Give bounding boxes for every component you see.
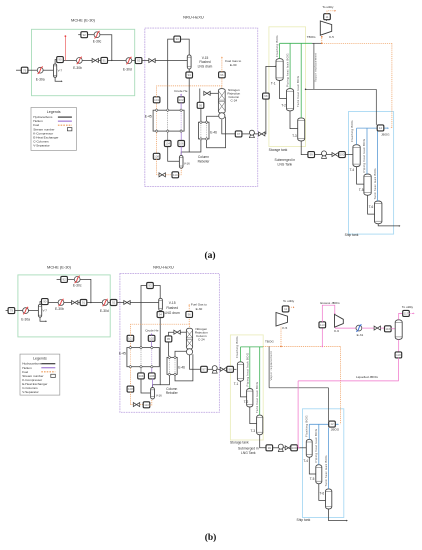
svg-text:98: 98 bbox=[264, 94, 268, 98]
svg-text:12: 12 bbox=[379, 126, 383, 130]
vapor replacement riser (a) bbox=[313, 43, 315, 89]
wire 98 to T-1 (a) bbox=[266, 66, 276, 93]
arrow fuel gas to E-30 (a) bbox=[221, 57, 223, 59]
stream 90 (b) bbox=[42, 299, 49, 305]
storage tank frame (b) bbox=[230, 335, 263, 440]
svg-text:T-6: T-6 bbox=[369, 205, 374, 209]
valve V-16 bottoms (b) bbox=[133, 403, 139, 407]
svg-text:K-6: K-6 bbox=[334, 329, 339, 333]
svg-text:Liquefied JBOG: Liquefied JBOG bbox=[356, 375, 378, 379]
separator V-15 (b) bbox=[159, 298, 163, 310]
fuel JBOG riser (b) bbox=[340, 346, 342, 424]
svg-text:95: 95 bbox=[167, 337, 171, 341]
fuel wire up to 96 (a) bbox=[221, 78, 223, 86]
stream 94 (a) bbox=[186, 72, 193, 78]
wire valve to V-15 (b) bbox=[130, 302, 159, 304]
stream 92 top (a) bbox=[81, 32, 88, 38]
svg-text:96: 96 bbox=[188, 313, 192, 317]
stream 93 (b) bbox=[147, 283, 154, 289]
svg-text:Piping heat leak BOG: Piping heat leak BOG bbox=[285, 53, 289, 87]
svg-text:MCHE (E-30): MCHE (E-30) bbox=[47, 264, 72, 269]
fuel wire E-45 top-left up (a) bbox=[156, 103, 158, 109]
tank T-2 (a) bbox=[287, 89, 294, 111]
fuel valve to 110 (b) bbox=[140, 404, 144, 406]
svg-text:12: 12 bbox=[330, 422, 334, 426]
wire valve to C-24 (a) bbox=[210, 92, 218, 94]
wire E-30c down to main (b) bbox=[80, 279, 91, 302]
separator V-7 (b) bbox=[38, 304, 41, 317]
tank T-4 (b) bbox=[306, 439, 312, 457]
svg-text:101: 101 bbox=[128, 336, 133, 340]
helium wire 106 to V-16 top (a) bbox=[180, 146, 182, 155]
svg-text:Crude He: Crude He bbox=[145, 328, 159, 332]
valve NRU inlet (b) bbox=[124, 301, 130, 305]
svg-text:Legends: Legends bbox=[47, 110, 61, 114]
wire stub to stream 92 top (a) bbox=[78, 34, 81, 36]
stream 102 (a) bbox=[178, 97, 185, 103]
separator V-17 (b) bbox=[395, 320, 402, 340]
legend box (b) bbox=[20, 354, 60, 395]
svg-text:92: 92 bbox=[112, 301, 116, 305]
heat exchanger E-30d (a) bbox=[126, 57, 132, 64]
stream 97 (b) bbox=[201, 366, 208, 372]
svg-text:104: 104 bbox=[139, 374, 144, 378]
wire V-15 top to 93 (b) bbox=[153, 286, 160, 299]
wire 90 to E-30b (b) bbox=[48, 302, 58, 304]
svg-text:Tank heat leak BOG: Tank heat leak BOG bbox=[296, 75, 300, 107]
tank T-5 (b) bbox=[316, 465, 322, 484]
wire C-24 bottoms (a) bbox=[222, 120, 236, 134]
fuel gas riser (b) bbox=[188, 305, 190, 311]
svg-text:Vapor replacement: Vapor replacement bbox=[269, 351, 273, 380]
wire 99 to pump (a) bbox=[314, 154, 321, 156]
svg-text:V-7: V-7 bbox=[58, 68, 63, 72]
blue tank line (b) bbox=[328, 428, 330, 489]
svg-text:(a): (a) bbox=[204, 250, 215, 261]
helium wire E-45 top-right (a) bbox=[180, 103, 182, 109]
stream JBOG (a) bbox=[377, 125, 384, 131]
svg-text:Flashing BOG: Flashing BOG bbox=[305, 415, 309, 437]
svg-text:92: 92 bbox=[62, 278, 66, 282]
green flashing BOG line (a) bbox=[279, 43, 281, 58]
wire T-3 bottom out (b) bbox=[260, 435, 266, 448]
svg-text:100: 100 bbox=[292, 446, 297, 450]
heat exchanger E-30b (b) bbox=[58, 299, 64, 306]
svg-text:94: 94 bbox=[188, 73, 192, 77]
svg-text:K-5: K-5 bbox=[282, 326, 287, 330]
stream 92 out (b) bbox=[110, 300, 117, 306]
svg-text:T-1: T-1 bbox=[271, 82, 276, 86]
svg-text:To utility: To utility bbox=[402, 305, 414, 309]
heat exchanger E-30a (a) bbox=[37, 67, 43, 74]
K-6 discharge to E-31 (b) bbox=[335, 326, 356, 329]
svg-text:Piping heat leak BOG: Piping heat leak BOG bbox=[245, 352, 249, 386]
arrow ship outlet (b) bbox=[346, 520, 348, 522]
wire 95 up to valve (a) bbox=[199, 89, 201, 103]
svg-text:E-46: E-46 bbox=[178, 366, 185, 370]
svg-text:E-45: E-45 bbox=[145, 114, 152, 118]
wire pump to valve (b) bbox=[283, 447, 285, 449]
svg-text:113: 113 bbox=[320, 323, 325, 327]
svg-text:Vapor replacement: Vapor replacement bbox=[314, 53, 318, 82]
wire C-24 side to E-46 (a) bbox=[207, 116, 219, 121]
fuel wire E-45 bottom-left (a) bbox=[156, 133, 158, 154]
svg-text:Crude He: Crude He bbox=[174, 89, 188, 93]
svg-text:E-30c: E-30c bbox=[73, 284, 82, 288]
fuel gas line into E-30 (a) bbox=[64, 36, 66, 60]
pump P-2 (b) bbox=[278, 444, 283, 452]
helium E-45 bottom-right (b) bbox=[151, 368, 153, 373]
stream 92 out (a) bbox=[135, 58, 142, 64]
wire K-5 to outbox (b) bbox=[285, 311, 287, 314]
stream 96 (b) bbox=[186, 311, 193, 317]
junction TBOG K-5 (b) bbox=[280, 346, 282, 348]
heat exchanger E-31 (b) bbox=[356, 325, 362, 332]
svg-text:Flashing BOG: Flashing BOG bbox=[350, 120, 354, 142]
wire V-7 top to stream 90 (a) bbox=[55, 60, 57, 64]
valve MCHE (b) bbox=[72, 301, 78, 305]
separator V-7 (a) bbox=[54, 64, 57, 77]
svg-text:98: 98 bbox=[228, 367, 232, 371]
wire pump to valve (b) bbox=[217, 368, 220, 370]
MCHE (E-30) frame (b) bbox=[18, 275, 110, 337]
blue flashing line (b) bbox=[308, 424, 310, 439]
svg-text:104: 104 bbox=[165, 142, 170, 146]
wire E-30d to 92 out (b) bbox=[108, 302, 110, 304]
svg-text:79: 79 bbox=[23, 68, 27, 72]
wire 98 to T-1 (b) bbox=[233, 368, 236, 370]
svg-text:TBOG: TBOG bbox=[265, 340, 274, 344]
stream 100 (b) bbox=[291, 445, 298, 451]
junction E-30c return (a) bbox=[111, 60, 112, 61]
svg-text:Legends: Legends bbox=[33, 357, 47, 361]
storage tank frame (a) bbox=[269, 27, 306, 147]
svg-text:V-Separator: V-Separator bbox=[33, 143, 50, 147]
wire valve to 91 (b) bbox=[78, 302, 80, 304]
stream 95 (b) bbox=[165, 336, 172, 342]
blue piping heat leak line (a) bbox=[366, 128, 368, 174]
wire E-30d to stream 92b (a) bbox=[132, 60, 136, 62]
svg-text:97: 97 bbox=[202, 367, 206, 371]
svg-text:92: 92 bbox=[83, 33, 87, 37]
fuel TBOG header (b) bbox=[263, 345, 341, 347]
svg-text:NRU-HeXU: NRU-HeXU bbox=[183, 15, 204, 20]
valve NRU inlet (a) bbox=[149, 59, 155, 63]
wire V-15 top to 93 (a) bbox=[181, 39, 190, 55]
fuel wire valve to 110 (a) bbox=[165, 174, 172, 176]
wire T-3 bottom out (a) bbox=[301, 141, 308, 155]
fuel 108 to valve (b) bbox=[130, 392, 133, 405]
valve C-24 reflux (b) bbox=[174, 330, 180, 334]
green tank heat leak line (a) bbox=[300, 43, 302, 118]
svg-text:99: 99 bbox=[268, 446, 272, 450]
svg-text:E-30a: E-30a bbox=[21, 318, 30, 322]
svg-text:V-Separator: V-Separator bbox=[22, 390, 39, 394]
svg-text:T-2: T-2 bbox=[281, 104, 286, 108]
fuel wire to K-5 (b) bbox=[280, 327, 282, 347]
stream 117 (b) bbox=[403, 310, 410, 316]
stream 110 (b) bbox=[143, 402, 150, 408]
wire 104 to V-16 (b) bbox=[141, 379, 151, 393]
stream 104 (a) bbox=[164, 141, 171, 147]
fuel node dot (a) bbox=[65, 35, 67, 37]
stream 98 (b) bbox=[227, 366, 234, 372]
junction liquefied JBOG (b) bbox=[298, 447, 300, 449]
svg-text:102: 102 bbox=[149, 336, 154, 340]
tank T-3 (b) bbox=[257, 415, 263, 435]
wire 90 to E-30b (a) bbox=[63, 59, 76, 61]
wire feed inlet (a) bbox=[16, 69, 21, 71]
svg-text:T-3: T-3 bbox=[292, 134, 297, 138]
svg-text:11: 11 bbox=[284, 307, 287, 311]
stream 110 (a) bbox=[172, 172, 179, 178]
wire valve to stream 91 (a) bbox=[99, 59, 102, 61]
liquefied JBOG line (b) bbox=[298, 358, 398, 381]
wire 97 to pump (b) bbox=[207, 368, 212, 370]
compressor K-5 (a) bbox=[320, 21, 331, 35]
wire 94 to V-16 top (a) bbox=[181, 78, 189, 156]
vapor replacement down to JBOG (a) bbox=[375, 89, 377, 125]
tank T-1 (a) bbox=[276, 59, 283, 81]
stream 104 (b) bbox=[138, 373, 145, 379]
tank T-1 (b) bbox=[237, 362, 243, 381]
fuel wire to utility (a) bbox=[327, 11, 335, 14]
svg-text:90: 90 bbox=[43, 300, 47, 304]
wire V-15 bottom to 94 (a) bbox=[188, 69, 190, 72]
vapor replacement down to JBOG (b) bbox=[328, 388, 330, 421]
wire E-45 mid bottom to 104 (a) bbox=[167, 133, 169, 141]
heat exchanger E-30a (b) bbox=[23, 307, 29, 314]
fuel header to C-24 (b) bbox=[130, 324, 188, 335]
NRU-HeXU frame (b) bbox=[120, 274, 219, 413]
wire K-5 to outbox (a) bbox=[326, 19, 328, 22]
svg-text:E-30d: E-30d bbox=[123, 68, 132, 72]
fuel wire to utility (b) bbox=[289, 306, 293, 308]
svg-text:To utility: To utility bbox=[283, 299, 295, 303]
heat exchanger E-46 (a) bbox=[199, 121, 210, 141]
junction TBOG (a) bbox=[321, 43, 323, 45]
wire 117 to utility (b) bbox=[409, 312, 413, 314]
svg-text:Fuel Gas to: Fuel Gas to bbox=[225, 59, 241, 63]
svg-text:Tank heat leak BOG: Tank heat leak BOG bbox=[255, 381, 259, 413]
tank T-2 (b) bbox=[247, 389, 253, 408]
svg-text:V-15: V-15 bbox=[169, 301, 176, 305]
wire V-17 bottom to 118 (b) bbox=[398, 340, 400, 353]
green piping heat leak line (a) bbox=[289, 43, 291, 88]
wire T-6 bottom out (b) bbox=[329, 509, 347, 521]
svg-text:(b): (b) bbox=[205, 532, 217, 543]
svg-text:93: 93 bbox=[148, 284, 152, 288]
svg-text:94: 94 bbox=[159, 313, 163, 317]
stream 94 (b) bbox=[157, 312, 164, 318]
wire C-24 bottoms (b) bbox=[190, 355, 201, 370]
vapor replacement horizontal (a) bbox=[306, 88, 377, 90]
valve C-24 reflux (a) bbox=[204, 91, 210, 95]
svg-text:E-30: E-30 bbox=[196, 307, 203, 311]
wire T-5 bottom to T-6 (a) bbox=[368, 195, 375, 214]
heat exchanger E-30c (b) bbox=[74, 276, 80, 283]
wire T-2 bottom to T-3 (a) bbox=[290, 111, 298, 129]
valve loading (a) bbox=[332, 153, 338, 157]
stream 116 (b) bbox=[385, 326, 392, 332]
stream 91 (a) bbox=[101, 57, 108, 63]
stream 98 (a) bbox=[263, 93, 270, 99]
svg-text:Fuel Gas to: Fuel Gas to bbox=[191, 303, 207, 307]
heat exchanger E-45 (a) bbox=[153, 109, 184, 133]
ship tank frame (a) bbox=[349, 112, 394, 235]
wire 95 to E-46 top (a) bbox=[200, 108, 202, 121]
wire 100 to T-4 (a) bbox=[345, 154, 353, 156]
wire E-31 to valve (b) bbox=[362, 327, 374, 329]
svg-text:JBOG: JBOG bbox=[331, 428, 340, 432]
junction K-5 inlet (a) bbox=[321, 36, 323, 38]
svg-text:Reboiler: Reboiler bbox=[198, 159, 211, 163]
stream K-5 out (b) bbox=[282, 306, 289, 312]
wire T-2 bottom to T-3 (b) bbox=[250, 407, 257, 424]
arrow V-7 drain (b) bbox=[46, 320, 47, 322]
arrow V-7 drain (a) bbox=[61, 80, 62, 82]
wire E-30c down to main (a) bbox=[100, 35, 112, 61]
heat exchanger E-30c (a) bbox=[94, 31, 100, 38]
svg-text:T-4: T-4 bbox=[350, 168, 355, 172]
wire V-7 bottom drain (b) bbox=[40, 317, 46, 321]
wire T-4 bottom to T-5 (b) bbox=[309, 457, 316, 474]
svg-text:E-30b: E-30b bbox=[73, 66, 82, 70]
svg-text:79: 79 bbox=[10, 309, 14, 313]
wire 104 to V-16 (a) bbox=[168, 146, 180, 161]
wire valve to 100 (a) bbox=[337, 154, 339, 156]
stream 95 (a) bbox=[197, 102, 204, 108]
arrow JBOG to riser (b) bbox=[338, 423, 339, 425]
svg-text:Submerged in: Submerged in bbox=[238, 446, 259, 450]
svg-text:Storage tank: Storage tank bbox=[230, 441, 249, 445]
wire 95 to valve (b) bbox=[169, 332, 174, 336]
valve JT (b) bbox=[374, 326, 380, 330]
stream 79 (a) bbox=[21, 67, 28, 73]
blue BOG header (a) bbox=[357, 127, 378, 129]
helium wire E-45 bottom-right (a) bbox=[180, 133, 182, 141]
wire 91 to E-30d (b) bbox=[87, 302, 103, 304]
svg-text:E-46: E-46 bbox=[210, 131, 217, 135]
wire 93 to E-45 mid (b) bbox=[141, 286, 147, 347]
stream 90 (a) bbox=[57, 57, 64, 63]
stream 102 (b) bbox=[148, 335, 155, 341]
svg-text:MCHE (E-30): MCHE (E-30) bbox=[71, 18, 96, 23]
svg-text:108: 108 bbox=[128, 387, 133, 391]
junction excess JBOG (b) bbox=[322, 346, 324, 348]
wire T-1 bottom to T-2 (b) bbox=[241, 381, 247, 397]
compressor K-6 (b) bbox=[335, 314, 344, 327]
green BOG header (a) bbox=[280, 42, 312, 44]
wire header to TBOG node (a) bbox=[312, 42, 322, 44]
wire 92 to E-30c (a) bbox=[87, 34, 94, 36]
MCHE (E-30) frame (a) bbox=[32, 29, 135, 95]
stream 118 (b) bbox=[395, 352, 402, 358]
wire pump to valve (a) bbox=[255, 133, 259, 135]
wire 95 to E-46 top (b) bbox=[168, 342, 170, 356]
svg-text:106: 106 bbox=[149, 374, 154, 378]
stream 92 top (b) bbox=[61, 276, 68, 282]
wire 94 to V-16 top (b) bbox=[153, 317, 161, 387]
wire V-17 top to 117 (b) bbox=[399, 313, 403, 319]
svg-text:97: 97 bbox=[237, 132, 241, 136]
wire T-6 bottom out (a) bbox=[378, 224, 399, 226]
stream 99 (a) bbox=[308, 152, 315, 158]
svg-text:T-4: T-4 bbox=[303, 459, 308, 463]
svg-text:To utility: To utility bbox=[322, 5, 334, 9]
svg-text:T-5: T-5 bbox=[310, 477, 315, 481]
wire E-30b to valve (a) bbox=[82, 59, 92, 61]
tank T-6 (b) bbox=[326, 489, 332, 509]
stream 93 (a) bbox=[174, 36, 181, 42]
wire 99 to pump (b) bbox=[273, 447, 279, 449]
fuel up to 96 (b) bbox=[188, 318, 190, 325]
stream 101 (b) bbox=[127, 335, 134, 341]
stream 79 (b) bbox=[8, 308, 15, 314]
fuel wire C-24 top (a) bbox=[221, 86, 223, 88]
svg-text:NRU-HeXU: NRU-HeXU bbox=[153, 264, 174, 269]
wire 100 to T-4 (b) bbox=[297, 447, 306, 449]
svg-text:V-16: V-16 bbox=[184, 162, 190, 166]
vapor replacement riser (b) bbox=[268, 346, 270, 387]
svg-text:E-30d: E-30d bbox=[100, 309, 109, 313]
pump P-2 (a) bbox=[322, 151, 327, 159]
stream 101 (a) bbox=[153, 97, 160, 103]
svg-text:LNG drum: LNG drum bbox=[198, 64, 213, 68]
svg-text:91: 91 bbox=[82, 301, 86, 305]
stream 91 (b) bbox=[80, 300, 87, 306]
svg-text:96: 96 bbox=[220, 73, 224, 77]
wire E-30b to valve (b) bbox=[64, 302, 72, 304]
green piping line (b) bbox=[249, 347, 251, 389]
svg-text:Ship tank: Ship tank bbox=[297, 518, 311, 522]
separator V-16 (b) bbox=[151, 388, 155, 400]
arrow to utility (b) bbox=[293, 306, 294, 308]
svg-text:Storage tank: Storage tank bbox=[269, 148, 288, 152]
svg-text:LNG Tank: LNG Tank bbox=[241, 451, 256, 455]
tank T-3 (a) bbox=[298, 118, 305, 141]
fuel wire 108 to valve (a) bbox=[157, 159, 159, 175]
green tank line (b) bbox=[259, 347, 261, 415]
svg-text:E-30c: E-30c bbox=[93, 39, 102, 43]
helium wire crude He out (a) bbox=[180, 94, 182, 97]
wire E-30a to V-7 (b) bbox=[28, 310, 38, 312]
heat exchanger E-45 (b) bbox=[127, 346, 159, 368]
pump P-1 (a) bbox=[249, 130, 254, 138]
wire valve to V-15 (a) bbox=[155, 60, 187, 62]
tank T-4 (a) bbox=[353, 145, 360, 167]
valve LNG send (b) bbox=[220, 367, 226, 371]
tank T-6 (a) bbox=[375, 201, 382, 224]
svg-text:E-31: E-31 bbox=[357, 333, 364, 337]
wire V-7 top to 90 (b) bbox=[40, 302, 42, 305]
excess JBOG riser lower (b) bbox=[321, 328, 323, 347]
stream 108 (b) bbox=[127, 386, 134, 392]
svg-text:LNG Tank: LNG Tank bbox=[277, 162, 292, 166]
svg-text:Piping heat leak BOG: Piping heat leak BOG bbox=[362, 138, 366, 172]
wire 79 to E-30a (a) bbox=[28, 69, 38, 71]
wire valve to 116 (b) bbox=[381, 327, 385, 329]
liquefied JBOG down (b) bbox=[297, 381, 299, 447]
blue header (b) bbox=[309, 423, 328, 425]
svg-text:T-6: T-6 bbox=[319, 492, 324, 496]
green header (b) bbox=[241, 346, 264, 348]
svg-text:Flashing BOG: Flashing BOG bbox=[235, 336, 239, 358]
svg-text:108: 108 bbox=[154, 154, 159, 158]
svg-text:JBOG: JBOG bbox=[381, 132, 390, 136]
wire C-24 side to E-46 (b) bbox=[175, 351, 186, 356]
valve MCHE (a) bbox=[92, 58, 98, 62]
